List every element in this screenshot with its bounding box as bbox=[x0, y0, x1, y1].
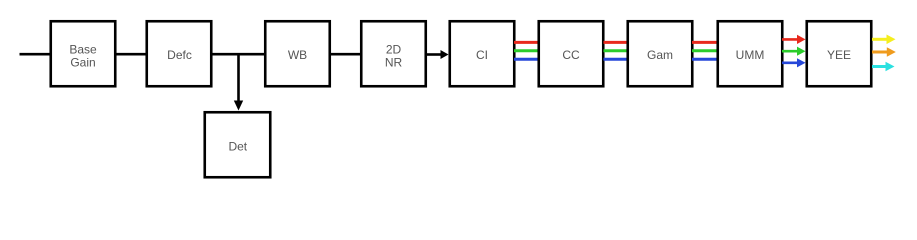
wire junction down to Det with arrowhead bbox=[234, 54, 243, 110]
svg-text:Gain: Gain bbox=[70, 55, 95, 69]
wire UMM to YEE green arrow bbox=[782, 47, 806, 56]
wire Defc to WB bbox=[212, 53, 266, 56]
wire YEE output cyan arrow bbox=[872, 62, 895, 72]
wire UMM to YEE blue arrow bbox=[782, 58, 806, 67]
wire CC to Gam blue line bbox=[604, 58, 629, 61]
wire Gam to UMM blue line bbox=[692, 58, 718, 61]
svg-text:Det: Det bbox=[228, 139, 247, 153]
wire CI to CC red line bbox=[514, 41, 539, 44]
svg-text:YEE: YEE bbox=[827, 48, 851, 62]
wire CI to CC green line bbox=[514, 49, 539, 52]
svg-text:Defc: Defc bbox=[167, 48, 192, 62]
block 2D NR bbox=[361, 21, 426, 86]
block WB bbox=[265, 21, 330, 86]
block UMM bbox=[718, 21, 783, 86]
block Defc bbox=[147, 21, 212, 86]
block Gam bbox=[628, 21, 693, 86]
wire Base Gain to Defc bbox=[116, 53, 147, 56]
svg-text:WB: WB bbox=[288, 48, 307, 62]
wire CI to CC blue line bbox=[514, 58, 539, 61]
block Base Gain bbox=[51, 21, 116, 86]
wire CC to Gam red line bbox=[604, 41, 629, 44]
block Det bbox=[205, 112, 271, 177]
svg-text:CC: CC bbox=[562, 48, 580, 62]
block CC bbox=[539, 21, 604, 86]
wire Gam to UMM red line bbox=[692, 41, 718, 44]
wire UMM to YEE red arrow bbox=[782, 35, 806, 44]
svg-text:CI: CI bbox=[476, 48, 488, 62]
wire Gam to UMM green line bbox=[692, 49, 718, 52]
wire YEE output orange arrow bbox=[872, 47, 896, 57]
svg-text:Gam: Gam bbox=[647, 48, 673, 62]
wire input line bbox=[20, 53, 51, 56]
svg-text:Base: Base bbox=[69, 42, 97, 56]
wire 2D NR to CI with black arrowhead bbox=[426, 50, 449, 59]
block YEE bbox=[807, 21, 872, 86]
svg-text:UMM: UMM bbox=[736, 48, 765, 62]
block CI bbox=[450, 21, 515, 86]
wire WB to 2D NR bbox=[330, 53, 361, 56]
wire CC to Gam green line bbox=[604, 49, 629, 52]
svg-text:2D: 2D bbox=[386, 42, 402, 56]
svg-text:NR: NR bbox=[385, 55, 403, 69]
wire YEE output yellow arrow bbox=[872, 35, 896, 45]
